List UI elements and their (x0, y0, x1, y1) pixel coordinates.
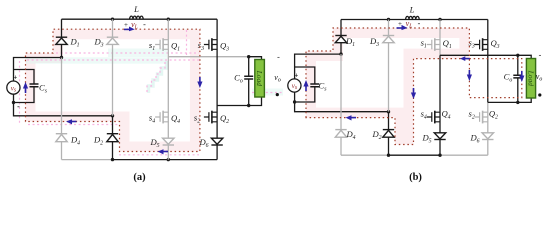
diode D6 (inactive) (482, 133, 493, 140)
node: D5 bottom junction (167, 158, 170, 161)
svg-text:Load: Load (255, 70, 264, 87)
red dashed current loop 2 (b) (469, 59, 521, 98)
pink dashed row 1 (56, 52, 199, 54)
diode D3 (inactive) (383, 36, 394, 43)
diode D2 (107, 134, 118, 142)
node: D3 top junction (387, 18, 390, 21)
current arrow down right side (197, 77, 202, 88)
wire: D4 leg (inactive) (61, 58, 63, 160)
wire: source branch bottom (295, 92, 389, 112)
wire: output bottom (488, 98, 531, 102)
transistor Q3 (475, 38, 488, 51)
node: D1/source junction (339, 52, 342, 55)
capacitor Co branch (517, 55, 519, 102)
current arrow down inside loop 2 left (467, 70, 472, 81)
svg-text:-: - (297, 97, 300, 106)
load resistor (255, 60, 265, 98)
wire: D4 leg (inactive) (340, 54, 342, 155)
cyan highlight band upper (108, 49, 167, 58)
inductor L (406, 16, 420, 19)
current arrow right under inductor (397, 25, 408, 30)
node: Co bottom junction (516, 101, 519, 104)
node: Co bottom junction (247, 104, 250, 107)
diode D6 (211, 138, 222, 145)
wire: D1 leg (61, 19, 63, 57)
svg-text:(a): (a) (133, 172, 146, 183)
node: D2 bottom junction (111, 158, 114, 161)
svg-text:(b): (b) (409, 172, 422, 183)
wire: bottom rail black middle (389, 154, 441, 156)
wire: D3 leg (inactive) (388, 20, 390, 112)
wire: bottom rail gray right (440, 154, 488, 156)
current arrow down right of Co (519, 71, 524, 82)
transistor Q4 (inactive) (155, 111, 168, 124)
svg-text:+: + (398, 20, 402, 28)
wire: bottom rail gray left (341, 154, 389, 156)
svg-text:-: - (539, 50, 542, 59)
node: Q1 leg top junction (438, 18, 441, 21)
capacitor Cs (310, 84, 319, 87)
svg-text:-: - (143, 20, 146, 29)
wire: D2 leg (388, 112, 390, 156)
wire: top rail (341, 19, 488, 21)
current arrow left on bottom return (346, 115, 357, 120)
node: Q1 leg top junction (167, 18, 170, 21)
wire: source branch bottom (14, 94, 113, 116)
wire: Cs loop bottom (295, 87, 315, 102)
svg-text:Load: Load (527, 70, 536, 87)
wire: Q4 leg active (439, 55, 441, 155)
current arrow up at source (303, 80, 308, 91)
diode D2 (383, 130, 394, 138)
current arrow right under inductor (124, 27, 135, 32)
wire: output top (440, 55, 531, 58)
inductor L (130, 16, 144, 19)
svg-text:+: + (13, 74, 17, 82)
node: Cs bottom junction (293, 100, 296, 103)
svg-text:-: - (418, 19, 421, 28)
svg-text:+: + (124, 21, 128, 29)
transistor Q1 (inactive) (155, 38, 168, 51)
node: D2/D3 input junction (387, 110, 390, 113)
pink dashed row 2 (27, 59, 199, 61)
svg-text:-: - (277, 53, 280, 62)
transistor Q3 (204, 38, 217, 51)
node: D2/D3 input junction (111, 114, 114, 117)
diode D1 (56, 37, 67, 44)
node: D3 top junction (111, 18, 114, 21)
diode D5 (inactive) (163, 138, 174, 145)
current arrow left on mid horizontal (460, 56, 470, 61)
wire: Q3/Q2 rail (216, 19, 218, 159)
svg-text:L: L (409, 5, 415, 15)
diode D5 (434, 133, 445, 140)
node: D2 bottom junction (387, 154, 390, 157)
wire: Cs loop bottom (14, 87, 35, 102)
highlight halo band of red current loop (b) (306, 28, 469, 145)
cyan staircase band (149, 61, 167, 93)
wire: Q3/Q2 rail upper (487, 20, 489, 103)
wire: Q2 leg (inactive) (487, 102, 489, 155)
node: D5 bottom junction (438, 154, 441, 157)
wire: Q1/Q4 leg (inactive) (167, 19, 169, 159)
wire: Cs loop top (14, 70, 35, 84)
transistor Q2 (204, 111, 217, 124)
current arrow left bottom (158, 149, 169, 154)
diode D4 (inactive) (335, 130, 346, 138)
voltage source vs (288, 79, 301, 92)
transistor Q4 (427, 111, 440, 124)
wire: output bottom (217, 97, 261, 106)
wire: output top black segment to load (249, 57, 262, 60)
wire: source branch top (295, 54, 341, 79)
wire: Q1 top leg (inactive) (439, 20, 441, 56)
current arrow down on x=413.5 (411, 88, 416, 99)
wire: Cs loop top (295, 67, 315, 84)
wire: bottom rail black segment (113, 159, 218, 161)
red dashed current loop 1 (b) (306, 28, 469, 145)
node: Co top junction (516, 54, 519, 57)
wire: source branch top (14, 58, 62, 82)
current arrow left on return wire (66, 119, 77, 124)
svg-text:+: + (294, 72, 298, 80)
wire: D1 leg (340, 20, 342, 55)
capacitor Co branch (248, 57, 250, 106)
voltage source vs (7, 81, 20, 94)
diode D4 (inactive) (56, 134, 67, 142)
cyan band near load (252, 89, 283, 96)
current arrow up at source (23, 82, 28, 93)
diode D3 (inactive) (107, 37, 118, 44)
load resistor (526, 59, 535, 99)
red dashed current loop (a) (26, 29, 200, 151)
wire: D2 leg (112, 116, 114, 160)
wire: output top (inactive segment) (168, 56, 248, 58)
node: Cs bottom junction (12, 101, 15, 104)
wire: top rail (62, 18, 218, 20)
wire: D3 leg (inactive) (112, 19, 114, 116)
wire: bottom rail gray segment (62, 159, 113, 161)
pink dashed row bottom (119, 154, 199, 156)
pink dashed vertical mid (186, 30, 188, 56)
node: D1/source junction (60, 56, 63, 59)
capacitor Cs (30, 84, 39, 87)
pink dashed row near load (252, 92, 282, 94)
transistor Q1 (inactive) (427, 38, 440, 51)
diode D1 (335, 36, 346, 43)
node: Co top junction (247, 55, 250, 58)
pink dashed staircase (147, 62, 165, 93)
svg-text:L: L (133, 4, 139, 14)
highlight halo band of red current loop (a) (26, 29, 200, 151)
transistor Q2 (inactive) (475, 111, 488, 124)
